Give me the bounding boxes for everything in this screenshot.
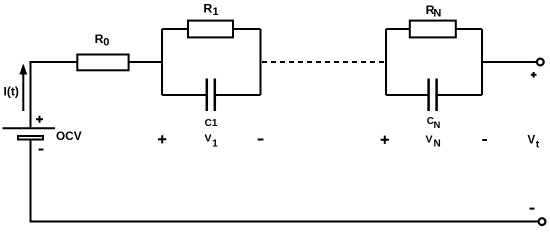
terminal negative circle (539, 218, 546, 225)
wire RC1 top left (162, 28, 188, 30)
battery minus sign (39, 149, 44, 151)
svg-text:I(t): I(t) (4, 84, 19, 98)
svg-text:0: 0 (103, 36, 109, 48)
wire RC2 top left (386, 28, 410, 30)
svg-text:V: V (528, 135, 536, 147)
svg-text:1: 1 (213, 6, 219, 18)
battery OCV bottom plate (18, 136, 43, 140)
svg-text:V: V (205, 133, 212, 145)
current arrow I(t) head (19, 64, 27, 75)
minus sign VN (482, 139, 487, 141)
plus sign V1 (158, 135, 166, 143)
capacitor C1 (207, 79, 215, 112)
resistor R0 (77, 55, 128, 71)
battery OCV top plate (3, 127, 56, 129)
svg-text:V: V (426, 133, 433, 145)
wire battery negative down and bottom return wire (31, 140, 539, 222)
resistor RN (410, 21, 456, 38)
svg-text:OCV: OCV (56, 129, 82, 143)
svg-text:1: 1 (212, 138, 218, 149)
capacitor CN (429, 79, 437, 112)
svg-text:R: R (95, 32, 104, 46)
svg-text:N: N (434, 138, 441, 149)
plus sign output terminal (531, 72, 537, 78)
wire dashed between RC blocks (262, 61, 386, 63)
minus sign V1 (258, 139, 264, 141)
plus sign VN (381, 136, 389, 144)
node RC1 left vertical (161, 29, 163, 95)
svg-text:N: N (434, 120, 441, 131)
wire RC2 bottom right (437, 94, 482, 96)
wire R0 to RC1 (129, 61, 162, 63)
svg-text:N: N (433, 7, 441, 19)
node RC2 left vertical (385, 29, 387, 95)
wire RC2 top right (456, 28, 482, 30)
wire RC1 bottom left (162, 94, 207, 96)
current arrow I(t) shaft (22, 72, 24, 111)
wire RC2 bottom left (386, 94, 429, 96)
node RC2 right vertical (481, 29, 483, 95)
svg-text:C1: C1 (205, 118, 218, 129)
resistor R1 (188, 21, 233, 38)
node RC1 right vertical (260, 29, 262, 95)
wire RC1 top right (233, 28, 261, 30)
terminal positive circle (537, 59, 544, 66)
svg-text:R: R (203, 1, 212, 15)
battery plus sign (36, 116, 43, 123)
wire left vertical top + top wire to R0 (31, 62, 78, 128)
wire RC1 bottom right (215, 94, 261, 96)
minus sign output terminal (530, 208, 535, 210)
wire to positive terminal (482, 61, 537, 63)
